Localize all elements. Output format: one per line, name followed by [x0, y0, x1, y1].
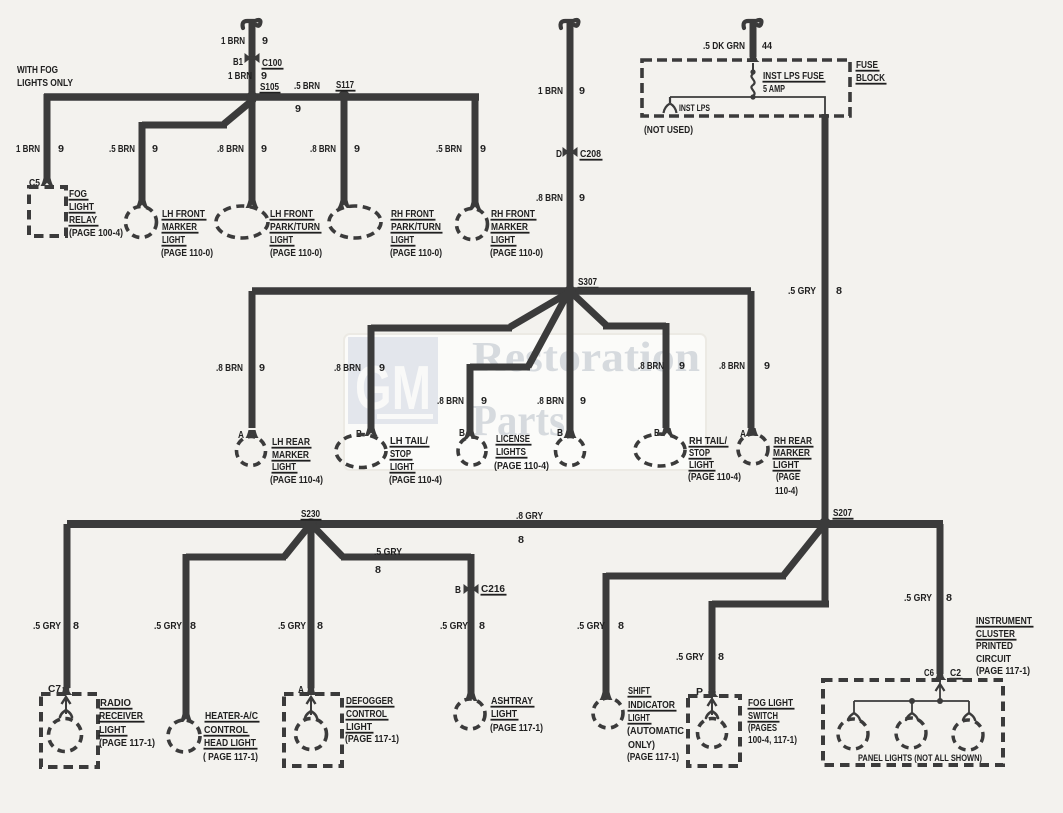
lamp terminal license light 1 [464, 431, 477, 439]
svg-text:9: 9 [580, 395, 586, 407]
svg-text:9: 9 [579, 85, 585, 97]
wire drop license light 2 [567, 291, 574, 431]
svg-text:(PAGE 110-0): (PAGE 110-0) [270, 247, 322, 259]
RH front park/turn light bulb [329, 206, 381, 238]
svg-text:8: 8 [479, 620, 485, 632]
svg-text:.5 GRY: .5 GRY [577, 620, 605, 632]
fuse block dashed box [642, 60, 850, 116]
svg-text:.8 BRN: .8 BRN [638, 360, 664, 372]
svg-text:C208: C208 [580, 148, 601, 160]
wire horizontal shift [606, 573, 786, 580]
svg-text:( PAGE 117-1): ( PAGE 117-1) [203, 751, 258, 763]
svg-text:SWITCH: SWITCH [748, 710, 778, 722]
splice S307 [564, 285, 575, 296]
wire bus S307 horizontal [252, 287, 751, 295]
svg-text:(PAGE 110-4): (PAGE 110-4) [389, 474, 442, 486]
svg-text:S105: S105 [260, 81, 279, 93]
svg-text:44: 44 [762, 40, 772, 52]
svg-text:LH REAR: LH REAR [272, 436, 310, 448]
lamp terminal LH front marker [136, 200, 149, 208]
svg-text:LIGHT: LIGHT [272, 461, 296, 473]
shift indicator light bulb [593, 698, 623, 728]
svg-text:9: 9 [379, 362, 385, 374]
RH rear marker light bulb [738, 434, 768, 464]
ashtray light bulb [455, 699, 485, 729]
svg-text:RH FRONT: RH FRONT [491, 208, 535, 220]
svg-text:8: 8 [190, 620, 196, 632]
terminal dot at fog switch [708, 688, 716, 696]
panel light drop 3 [968, 701, 970, 712]
svg-text:8: 8 [946, 592, 952, 604]
printed circuit riser and arrow [939, 682, 941, 701]
svg-text:S307: S307 [578, 276, 597, 288]
svg-text:.5 GRY: .5 GRY [374, 546, 402, 558]
wire drop LH tail/stop [368, 325, 375, 428]
LH front marker light bulb [126, 207, 157, 238]
splice S117 [338, 90, 349, 101]
svg-text:(PAGE 110-0): (PAGE 110-0) [490, 247, 543, 259]
svg-text:CIRCUIT: CIRCUIT [976, 653, 1011, 665]
wire horizontal license [470, 364, 530, 371]
radio receiver light bulb [49, 719, 82, 752]
license light bulb 1 [458, 437, 486, 465]
instrument cluster box [823, 680, 1003, 765]
svg-text:.5 GRY: .5 GRY [33, 620, 61, 632]
svg-text:8: 8 [718, 651, 724, 663]
svg-text:B: B [557, 427, 563, 439]
wire bus S105-S117 horizontal [44, 93, 479, 101]
svg-text:BLOCK: BLOCK [856, 72, 885, 84]
svg-text:RH FRONT: RH FRONT [391, 208, 434, 220]
wire to fog light relay C5 [44, 94, 51, 180]
wire diagonal S230 to heater run [284, 526, 309, 557]
wire drop instrument cluster [937, 524, 944, 674]
continuation hook top of center 1 BRN wire [561, 20, 579, 28]
svg-text:RH TAIL/: RH TAIL/ [689, 435, 727, 447]
svg-text:(PAGE 117-1): (PAGE 117-1) [976, 665, 1030, 677]
svg-text:MARKER: MARKER [773, 447, 810, 459]
svg-text:(AUTOMATIC: (AUTOMATIC [627, 725, 684, 737]
svg-text:(PAGE 110-4): (PAGE 110-4) [688, 471, 741, 483]
svg-text:LIGHT: LIGHT [491, 234, 515, 246]
svg-text:8: 8 [618, 620, 624, 632]
wire drop LH front park/turn [249, 97, 256, 202]
splice S230 [305, 518, 316, 529]
svg-text:.5 GRY: .5 GRY [278, 620, 306, 632]
fuse INST LPS FUSE 5 AMP [752, 63, 754, 70]
defogger control light bulb [296, 719, 327, 750]
svg-text:RECEIVER: RECEIVER [99, 710, 143, 722]
svg-text:PARK/TURN: PARK/TURN [270, 221, 320, 233]
svg-text:100-4, 117-1): 100-4, 117-1) [748, 734, 797, 746]
arrow into fog light switch [706, 689, 719, 697]
svg-text:8: 8 [518, 534, 524, 546]
wire horizontal to LH front marker [142, 122, 227, 129]
wire drop LH front marker [139, 122, 146, 202]
svg-text:SHIFT: SHIFT [628, 685, 650, 697]
terminal C5 into relay box [41, 178, 54, 186]
svg-text:(PAGE 110-4): (PAGE 110-4) [494, 460, 549, 472]
svg-text:C6: C6 [924, 667, 934, 679]
svg-text:(NOT USED): (NOT USED) [644, 124, 693, 136]
connector C100 [245, 53, 260, 63]
svg-text:.8 BRN: .8 BRN [217, 143, 244, 155]
heater control head light bulb [168, 720, 200, 752]
svg-text:(PAGE 110-0): (PAGE 110-0) [390, 247, 442, 259]
svg-text:.8 BRN: .8 BRN [310, 143, 336, 155]
wire bus .8 GRY S230-S207 [67, 520, 943, 528]
INST LPS terminal (not used) [664, 97, 677, 113]
svg-text:9: 9 [679, 360, 685, 372]
wire horizontal RH tail [603, 323, 666, 330]
svg-text:.8 BRN: .8 BRN [216, 362, 243, 374]
svg-text:LICENSE: LICENSE [496, 433, 530, 445]
fog light switch bulb [698, 719, 727, 748]
svg-text:9: 9 [481, 395, 487, 407]
svg-text:9: 9 [261, 143, 267, 155]
svg-text:CONTROL: CONTROL [346, 708, 387, 720]
wire diagonal S307 to license run [528, 293, 568, 367]
svg-text:FOG LIGHT: FOG LIGHT [748, 697, 793, 709]
svg-text:.8 GRY: .8 GRY [516, 510, 543, 522]
wire drop RH front marker [472, 97, 479, 203]
svg-text:9: 9 [262, 35, 268, 47]
svg-text:FUSE: FUSE [856, 59, 878, 71]
wire end flare at fuse block [747, 54, 760, 62]
GM Restoration Parts watermark plaque [344, 334, 706, 470]
svg-text:.5 BRN: .5 BRN [294, 80, 320, 92]
panel light drop 1 [853, 701, 855, 712]
svg-text:8: 8 [73, 620, 79, 632]
lamp terminal LH tail/stop [365, 428, 378, 436]
svg-text:FOG: FOG [69, 188, 87, 200]
svg-text:(PAGE: (PAGE [776, 471, 800, 483]
svg-text:9: 9 [295, 103, 301, 115]
svg-text:B: B [455, 584, 461, 596]
junction on rail [909, 698, 915, 704]
splice S207 [819, 517, 830, 528]
svg-text:5 AMP: 5 AMP [763, 83, 785, 95]
defogger control light box [284, 694, 342, 766]
svg-text:9: 9 [58, 143, 64, 155]
fog light relay box [29, 187, 66, 236]
wire horizontal ashtray [341, 554, 471, 561]
lamp terminal RH rear marker [746, 428, 759, 436]
RH front marker light bulb [457, 209, 488, 240]
thin bus inside fuse block [670, 97, 825, 116]
wire drop ashtray light [468, 554, 475, 695]
svg-text:(PAGE 100-4): (PAGE 100-4) [69, 227, 123, 239]
lamp terminal license light 2 [564, 430, 577, 438]
wire drop radio receiver light [64, 524, 71, 688]
svg-text:RADIO: RADIO [100, 697, 131, 709]
svg-text:LIGHT: LIGHT [162, 234, 185, 246]
svg-text:C100: C100 [262, 57, 282, 69]
svg-text:INDICATOR: INDICATOR [628, 699, 675, 711]
wire drop license light 1 [467, 364, 474, 431]
GM logo square watermark [348, 337, 438, 424]
svg-text:RH REAR: RH REAR [774, 435, 812, 447]
svg-text:.8 BRN: .8 BRN [537, 395, 564, 407]
svg-text:LIGHT: LIGHT [390, 461, 414, 473]
wire horizontal heater [186, 554, 286, 561]
svg-text:1 BRN: 1 BRN [221, 35, 245, 47]
printed circuit rail [854, 700, 969, 702]
svg-text:(PAGE 117-1): (PAGE 117-1) [627, 751, 679, 763]
svg-text:9: 9 [764, 360, 770, 372]
svg-text:INST LPS: INST LPS [679, 103, 710, 114]
svg-text:9: 9 [259, 362, 265, 374]
lamp terminal LH rear marker [246, 430, 259, 438]
svg-text:LIGHTS ONLY: LIGHTS ONLY [17, 77, 73, 89]
wire S207 down to fog switch run [822, 520, 829, 604]
wire end flare at cluster [934, 672, 947, 680]
lamp terminal heater light [180, 714, 193, 722]
wire drop RH tail/stop [663, 323, 670, 428]
wire diagonal S230 to ashtray run [313, 526, 343, 557]
svg-text:8: 8 [836, 285, 842, 297]
svg-text:.5 BRN: .5 BRN [436, 143, 462, 155]
svg-text:INSTRUMENT: INSTRUMENT [976, 615, 1032, 627]
svg-text:8: 8 [317, 620, 323, 632]
svg-text:STOP: STOP [390, 448, 411, 460]
wire drop LH rear marker [249, 291, 256, 428]
svg-text:1 BRN: 1 BRN [538, 85, 563, 97]
connector C216 [464, 584, 479, 594]
panel light bulb 3 [953, 720, 983, 750]
license light bulb 2 [556, 437, 585, 466]
svg-text:STOP: STOP [689, 447, 710, 459]
RH tail/stop light bulb [635, 434, 685, 466]
svg-text:ASHTRAY: ASHTRAY [491, 695, 533, 707]
svg-text:GM: GM [355, 354, 431, 423]
svg-text:.5 GRY: .5 GRY [154, 620, 182, 632]
svg-text:MARKER: MARKER [491, 221, 528, 233]
svg-text:.5 GRY: .5 GRY [440, 620, 468, 632]
lamp terminal RH tail/stop [661, 428, 674, 436]
wire 1 BRN from hook to S105 [249, 23, 256, 93]
panel light drop 2 [911, 701, 913, 712]
lamp terminal LH front park/turn [246, 200, 259, 208]
svg-text:(PAGE 110-0): (PAGE 110-0) [161, 247, 213, 259]
LH tail/stop light bulb [336, 435, 386, 468]
connector C208 [563, 147, 578, 157]
svg-text:CLUSTER: CLUSTER [976, 628, 1015, 640]
arrow into radio receiver light [60, 687, 73, 695]
LH front park/turn light bulb [216, 206, 268, 238]
svg-text:(PAGE 117-1): (PAGE 117-1) [345, 733, 399, 745]
continuation hook top of .5 DK GRN wire [744, 20, 762, 28]
svg-text:INST LPS FUSE: INST LPS FUSE [763, 70, 824, 82]
svg-text:C2: C2 [950, 667, 961, 679]
svg-text:1 BRN: 1 BRN [228, 70, 252, 82]
svg-text:9: 9 [354, 143, 360, 155]
wire drop defogger light [308, 524, 315, 688]
wire diagonal S307 to RH tail run [572, 293, 606, 325]
wire 1 BRN / .8 BRN center vertical to S307 [567, 23, 574, 291]
junction on rail [937, 698, 943, 704]
svg-text:LIGHT: LIGHT [773, 459, 799, 471]
svg-text:LH TAIL/: LH TAIL/ [390, 435, 428, 447]
lamp terminal RH front park/turn [338, 200, 351, 208]
svg-text:LIGHT: LIGHT [628, 712, 650, 724]
svg-text:PRINTED: PRINTED [976, 640, 1013, 652]
svg-text:(PAGE 117-1): (PAGE 117-1) [99, 737, 155, 749]
svg-text:B1: B1 [233, 56, 243, 68]
LH rear marker light bulb [237, 437, 266, 466]
svg-text:LIGHT: LIGHT [270, 234, 293, 246]
svg-text:.5 BRN: .5 BRN [109, 143, 135, 155]
svg-text:8: 8 [375, 564, 381, 576]
splice S105 [246, 91, 257, 102]
svg-text:9: 9 [152, 143, 158, 155]
svg-text:.5 GRY: .5 GRY [904, 592, 932, 604]
wire .5 GRY fuse block to S207 [822, 114, 829, 524]
svg-text:D: D [556, 148, 562, 160]
svg-text:WITH FOG: WITH FOG [17, 64, 58, 76]
svg-text:MARKER: MARKER [272, 449, 309, 461]
svg-text:(PAGE 117-1): (PAGE 117-1) [490, 722, 543, 734]
svg-text:.5 GRY: .5 GRY [676, 651, 704, 663]
svg-text:PARK/TURN: PARK/TURN [391, 221, 441, 233]
svg-text:1 BRN: 1 BRN [16, 143, 40, 155]
svg-text:C216: C216 [481, 583, 505, 595]
svg-text:HEAD LIGHT: HEAD LIGHT [204, 737, 256, 749]
svg-text:.8 BRN: .8 BRN [719, 360, 745, 372]
wire drop RH front park/turn [341, 96, 348, 202]
svg-text:110-4): 110-4) [775, 485, 798, 497]
svg-text:PANEL LIGHTS (NOT ALL SHOWN): PANEL LIGHTS (NOT ALL SHOWN) [858, 753, 982, 763]
svg-text:S117: S117 [336, 79, 354, 91]
lamp terminal shift indicator [600, 692, 613, 700]
svg-text:DEFOGGER: DEFOGGER [346, 695, 393, 707]
svg-text:LIGHTS: LIGHTS [496, 446, 526, 458]
wire diagonal S207 to shift run [783, 526, 823, 576]
svg-text:ONLY): ONLY) [628, 739, 655, 751]
svg-text:LIGHT: LIGHT [69, 201, 94, 213]
panel light bulb 2 [896, 718, 926, 748]
svg-text:MARKER: MARKER [162, 221, 197, 233]
svg-text:.8 BRN: .8 BRN [334, 362, 361, 374]
wire drop shift indicator light [603, 573, 610, 694]
svg-text:HEATER-A/C: HEATER-A/C [205, 710, 258, 722]
wire drop RH rear marker [748, 291, 755, 428]
svg-text:(PAGE 110-4): (PAGE 110-4) [270, 474, 323, 486]
svg-text:.8 BRN: .8 BRN [536, 192, 563, 204]
wire horizontal LH tail [371, 325, 512, 332]
radio receiver light box [41, 694, 98, 767]
wire drop heater light [183, 554, 190, 716]
svg-text:.5 DK GRN: .5 DK GRN [703, 40, 745, 52]
svg-text:9: 9 [480, 143, 486, 155]
svg-text:CONTROL: CONTROL [204, 724, 248, 736]
panel light bulb 1 [838, 719, 868, 749]
lamp terminal ashtray light [465, 693, 478, 701]
svg-text:9: 9 [579, 192, 585, 204]
fog light switch box [688, 696, 740, 766]
svg-text:LIGHT: LIGHT [346, 721, 372, 733]
arrow into defogger light [305, 687, 318, 695]
svg-text:LIGHT: LIGHT [491, 708, 517, 720]
svg-text:S207: S207 [833, 507, 852, 519]
svg-text:LIGHT: LIGHT [689, 459, 714, 471]
lamp terminal RH front marker [469, 202, 482, 210]
svg-text:LH FRONT: LH FRONT [162, 208, 205, 220]
continuation hook top of 1 BRN wire [243, 20, 261, 28]
svg-text:.8 BRN: .8 BRN [437, 395, 464, 407]
svg-text:LH FRONT: LH FRONT [270, 208, 313, 220]
wire .5 DK GRN to fuse block [750, 23, 757, 57]
wire diagonal S105 to LH front marker run [224, 99, 254, 124]
wire diagonal S307 to LH tail run [510, 293, 568, 327]
wire horizontal fog switch [712, 601, 829, 608]
svg-text:S230: S230 [301, 508, 320, 520]
svg-text:(PAGES: (PAGES [748, 722, 777, 734]
wire drop fog light switch [709, 601, 716, 690]
svg-text:.5 GRY: .5 GRY [788, 285, 816, 297]
svg-text:LIGHT: LIGHT [99, 724, 126, 736]
svg-text:RELAY: RELAY [69, 214, 97, 226]
svg-text:LIGHT: LIGHT [391, 234, 414, 246]
